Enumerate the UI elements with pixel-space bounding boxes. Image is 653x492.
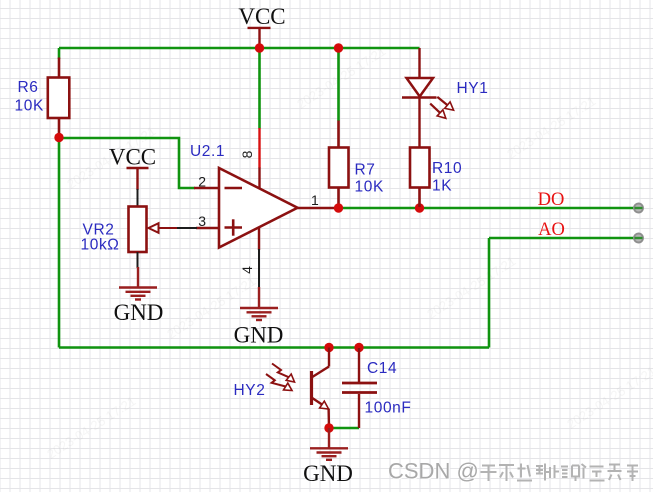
op-amp U2.1 plus input mark <box>225 219 243 235</box>
op-amp U2.1 minus input mark <box>225 187 243 190</box>
svg-text:10K: 10K <box>15 98 44 115</box>
phototransistor HY2 emitter with arrowhead <box>312 398 330 429</box>
junction: HY2 emitter / C14 / GND node <box>324 423 333 432</box>
svg-text:DO: DO <box>538 190 565 210</box>
faint diagonal timestamp watermark 1 <box>64 123 158 191</box>
svg-text:10K: 10K <box>355 179 384 196</box>
CSDN watermark CJK glyph blocks <box>481 464 639 482</box>
resistor R6 labels <box>15 79 44 115</box>
junction: VCC on top rail <box>255 43 264 52</box>
svg-text:VCC: VCC <box>109 145 156 170</box>
svg-text:8: 8 <box>239 150 255 158</box>
svg-text:R10: R10 <box>432 160 462 177</box>
wire: wiper to pin 3 (black) <box>177 227 197 229</box>
capacitor C14 top lead <box>358 348 360 382</box>
wire: AO net horizontal <box>489 237 638 240</box>
junction: C14 top node on bottom rail <box>354 343 363 352</box>
faint diagonal timestamp watermark 6 <box>564 363 653 431</box>
wire: top rail down to R6 <box>58 48 61 59</box>
svg-text:CSDN @: CSDN @ <box>388 459 479 484</box>
op-amp U2.1 pin 8 lead <box>258 168 260 189</box>
wire: VCC to VR2 top (black) <box>137 189 139 207</box>
wire: emitter junction to C14 bottom <box>329 427 359 430</box>
faint diagonal timestamp watermark 2 <box>294 43 388 111</box>
junction: op-amp output / R7 node <box>334 203 343 212</box>
svg-text:HY2: HY2 <box>234 382 266 399</box>
op-amp U2.1 output pin 1 lead <box>298 207 339 209</box>
svg-text:HY1: HY1 <box>457 80 489 97</box>
ground symbol (op-amp pin 4) <box>240 287 278 320</box>
junction: R10 bottom node <box>415 203 424 212</box>
faint diagonal timestamp watermark 4 <box>164 273 258 341</box>
op-amp U2.1 pin 2 lead <box>194 187 220 189</box>
op-amp U2.1 triangle body <box>219 168 298 248</box>
resistor R6 <box>48 58 70 137</box>
power VCC (top) symbol <box>248 28 271 47</box>
wire: AO vertical down to bottom rail <box>488 238 491 348</box>
capacitor C14 plates <box>342 383 377 393</box>
phototransistor HY2 base bar <box>310 371 313 405</box>
LED HY1 anode lead <box>418 48 420 78</box>
phototransistor HY2 light arrow 1 <box>272 364 295 383</box>
potentiometer VR2 body <box>129 207 147 253</box>
potentiometer VR2 wiper arrow <box>149 223 179 233</box>
junction: R7 feed on top rail <box>334 43 343 52</box>
wire: top rail down to R7 <box>337 48 340 121</box>
op-amp U2.1 pin 4 lead <box>258 227 260 250</box>
faint diagonal timestamp watermark 7 <box>44 393 138 461</box>
CSDN watermark text <box>388 459 480 485</box>
resistor R7 labels <box>355 162 384 196</box>
svg-text:GND: GND <box>114 300 164 325</box>
phototransistor HY2 light arrow 2 <box>266 374 292 391</box>
svg-text:10kΩ: 10kΩ <box>81 237 120 254</box>
LED HY1 cathode lead to R10 <box>418 98 420 149</box>
op-amp U2.1 pin 3 lead <box>196 227 220 229</box>
wire: top VCC rail <box>59 47 420 50</box>
svg-text:2: 2 <box>198 174 206 190</box>
svg-text:R6: R6 <box>18 79 39 96</box>
LED HY1 cathode bar <box>402 96 437 99</box>
wire: DO net from output junction to terminal <box>339 207 639 210</box>
LED HY1 emission arrow 1 <box>437 97 453 110</box>
phototransistor HY2 collector <box>312 348 330 378</box>
resistor R7 <box>329 121 349 208</box>
ground symbol (bottom) <box>310 428 348 460</box>
svg-text:GND: GND <box>234 323 284 348</box>
wire: VR2 bottom to GND (black) <box>137 252 139 268</box>
capacitor C14 bottom lead <box>358 394 360 428</box>
faint diagonal timestamp watermark 3 <box>504 93 598 161</box>
resistor R10 <box>410 148 430 208</box>
potentiometer VR2 labels <box>81 222 120 254</box>
wire: bottom rail <box>59 346 489 349</box>
terminal AO <box>634 234 643 243</box>
junction: R6 bottom node <box>54 133 63 142</box>
wire: R6 junction to op-amp pin 2 <box>59 138 195 188</box>
LED HY1 triangle <box>407 78 434 97</box>
svg-text:100nF: 100nF <box>365 400 412 417</box>
svg-text:GND: GND <box>303 461 353 486</box>
svg-text:1K: 1K <box>432 178 452 195</box>
svg-text:AO: AO <box>538 220 565 240</box>
wire: VCC junction down to op-amp pin 8 <box>258 48 261 129</box>
svg-text:1: 1 <box>311 192 319 208</box>
power VCC (VR2) symbol <box>127 168 149 190</box>
junction: HY2 collector node on bottom rail <box>324 343 333 352</box>
faint diagonal timestamp watermark 5 <box>424 253 518 321</box>
wire: pin 4 to GND (black) <box>258 249 260 288</box>
svg-text:C14: C14 <box>367 360 397 377</box>
terminal DO <box>634 204 643 213</box>
svg-text:4: 4 <box>239 266 255 274</box>
svg-text:VCC: VCC <box>238 4 285 29</box>
ground symbol (VR2) <box>119 267 157 300</box>
svg-text:U2.1: U2.1 <box>190 143 225 160</box>
wire: left vertical from R6 to bottom rail <box>58 137 61 348</box>
svg-text:R7: R7 <box>355 162 376 179</box>
svg-text:3: 3 <box>198 213 206 229</box>
capacitor C14 labels <box>365 360 412 417</box>
resistor R10 labels <box>432 160 462 195</box>
LED HY1 emission arrow 2 <box>430 104 446 119</box>
op-amp U2.1 pin 8 net segment (bright red) <box>258 128 260 168</box>
